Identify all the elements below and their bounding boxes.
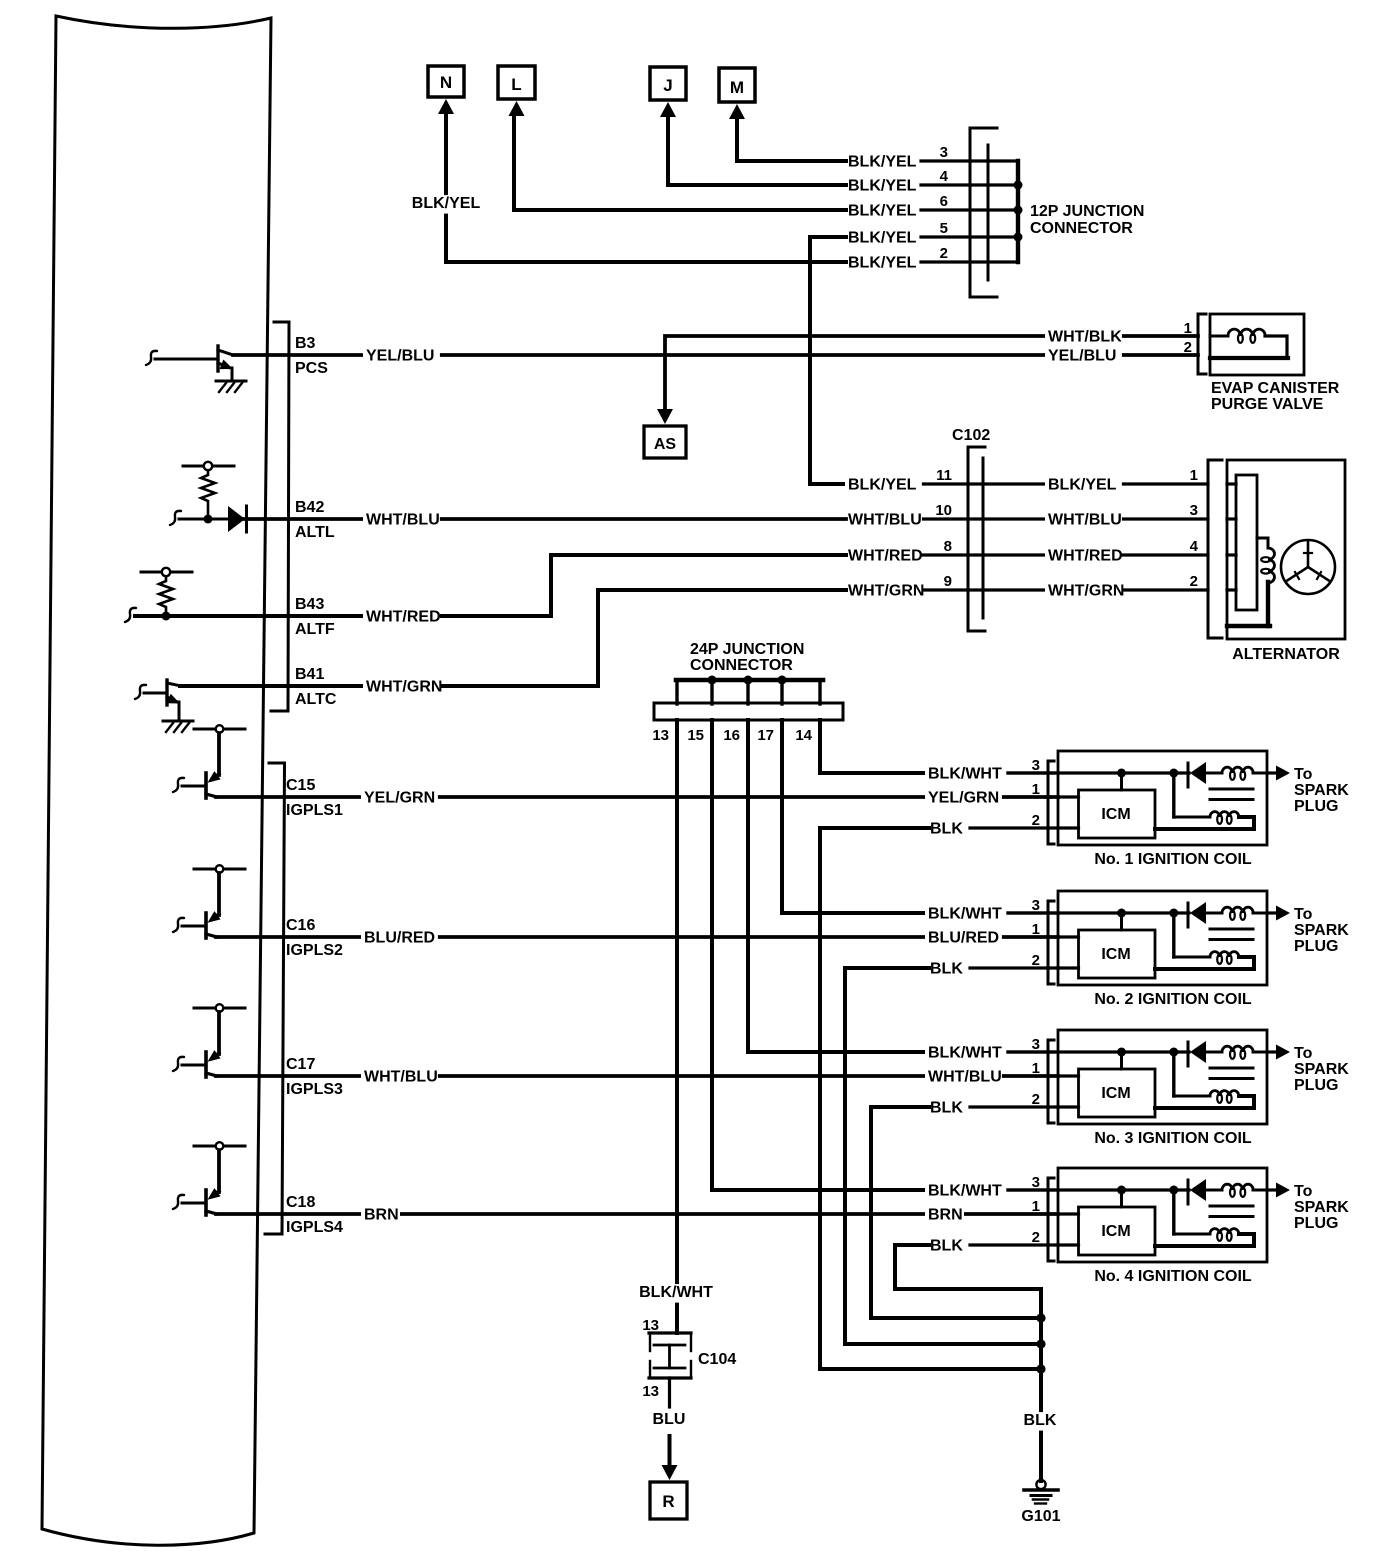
svg-text:1: 1: [1032, 781, 1040, 798]
label BLK (ground lead): [1021, 1412, 1060, 1431]
arrowhead to spark plug (No.4): [1276, 1183, 1290, 1198]
svg-text:4: 4: [940, 168, 949, 185]
label No. 3 IGNITION COIL: [1094, 1130, 1252, 1147]
svg-text:12P JUNCTION: 12P JUNCTION: [1030, 203, 1144, 220]
svg-text:BLU: BLU: [653, 1411, 686, 1428]
wire WHT/BLU (IGPLS3 to No.3 coil pin 1): [216, 1074, 1058, 1078]
label BLK/YEL on N wire: [408, 195, 485, 214]
svg-text:CONNECTOR: CONNECTOR: [1030, 220, 1133, 237]
label WHT/BLU (left): [361, 1069, 438, 1088]
wire BLK No.3 coil to ground bus: [871, 1107, 1041, 1318]
svg-text:G101: G101: [1021, 1508, 1060, 1525]
svg-text:PURGE VALVE: PURGE VALVE: [1211, 396, 1324, 413]
wire 17 to No.2 coil BLK/WHT: [782, 720, 926, 913]
label BLK/YEL (left of C102): [845, 477, 922, 496]
label No. 2 IGNITION COIL: [1094, 991, 1252, 1008]
svg-text:To: To: [1294, 766, 1313, 783]
wire BRN (IGPLS4 to No.4 coil pin 1): [216, 1212, 1058, 1216]
wire junction to ICM (No.1): [1120, 773, 1123, 790]
ICM module box (No.1 coil): [1079, 790, 1156, 838]
svg-text:BRN: BRN: [364, 1207, 399, 1224]
label YEL/BLU (left): [363, 348, 440, 367]
No.4 coil pin3 stub wire: [1008, 1188, 1058, 1191]
svg-text:C102: C102: [952, 427, 990, 444]
wire supply to transistor Q4 emitter: [217, 873, 221, 915]
svg-text:1: 1: [1032, 1060, 1040, 1077]
No.2 coil pin 2 number: [1032, 952, 1040, 969]
wire BLK No.4 coil to ground bus: [895, 1245, 1041, 1481]
24P pin 17 number: [757, 727, 774, 744]
junction on 12P bus: [1014, 206, 1023, 215]
label No. 1 IGNITION COIL: [1094, 851, 1252, 868]
24P bus stub: [780, 680, 783, 704]
svg-text:16: 16: [723, 727, 740, 744]
ground (ALTC emitter): [163, 721, 193, 732]
svg-text:PLUG: PLUG: [1294, 1215, 1338, 1232]
svg-text:BLK: BLK: [930, 1100, 963, 1117]
pin C17 name IGPLS3: [286, 1081, 343, 1098]
arrowhead into R: [662, 1465, 678, 1480]
pin B42 label: [295, 499, 324, 516]
connector box M: [719, 68, 755, 102]
svg-text:ICM: ICM: [1101, 806, 1130, 823]
12P pin 4 stub: [921, 183, 1018, 186]
12P junction connector bracket: [970, 128, 997, 297]
alternator pin 2 number: [1190, 573, 1198, 590]
primary winding (No.4 coil): [1206, 1184, 1267, 1197]
core lines (No.4 coil): [1210, 1206, 1253, 1217]
wire C102 pin 11 to alternator pin 1: [983, 482, 1208, 485]
wire C102 pin 10 to alternator pin 3: [983, 517, 1208, 520]
24P pin 14 number: [795, 727, 812, 744]
transistor Q5 (PNP, IGPLS3 driver): [206, 1050, 221, 1077]
ICM module box (No.3 coil): [1079, 1069, 1156, 1117]
label BLK (No.4 coil): [927, 1238, 966, 1257]
wire D1 cathode to pin B3 row: [247, 518, 265, 521]
connector box N: [428, 66, 464, 97]
svg-text:R: R: [662, 1492, 674, 1511]
svg-text:3: 3: [1190, 502, 1198, 519]
alternator pin 1 number: [1190, 467, 1198, 484]
arrowhead into J: [660, 102, 676, 117]
No.4 coil pin 1 wire into ICM: [1058, 1212, 1079, 1215]
label WHT/RED (B43): [363, 609, 441, 628]
svg-text:10: 10: [935, 502, 952, 519]
No.4 coil pin 1 number: [1032, 1198, 1040, 1215]
junction on No.3 coil primary feed 2: [1169, 1048, 1178, 1057]
svg-text:9: 9: [944, 573, 952, 590]
pin C16 name IGPLS2: [286, 942, 343, 959]
svg-text:N: N: [440, 73, 452, 92]
No.2 coil pin 3 number: [1032, 897, 1040, 914]
connector box R: [650, 1482, 687, 1519]
wire BLK No.2 coil to ground bus: [845, 968, 1041, 1344]
label BRN (No.4 coil): [925, 1207, 964, 1226]
ICM module box (No.4 coil): [1079, 1207, 1156, 1255]
wire coil output to spark plug (No.1): [1267, 771, 1278, 774]
pin C15 name IGPLS1: [286, 802, 343, 819]
rotor / stator symbol (alternator): [1281, 540, 1335, 594]
arrowhead into N: [438, 99, 454, 114]
No.3 ignition coil box: [1058, 1030, 1267, 1124]
label WHT/BLU (left of C102): [845, 512, 922, 531]
wire B42/ALTL WHT/BLU row: [233, 517, 846, 521]
label WHT/GRN (right of C102): [1045, 583, 1124, 602]
No.2 coil pin 2 wire into ICM: [1058, 966, 1079, 969]
svg-text:4: 4: [1190, 538, 1199, 555]
wire supply to transistor Q6 emitter: [217, 1150, 221, 1192]
field winding L2 (alternator): [1227, 538, 1275, 626]
No.1 coil pin 1 number: [1032, 781, 1040, 798]
wire 13 down to C104: [675, 720, 679, 1333]
No.1 coil pin2 stub wire: [970, 826, 1058, 829]
label WHT/RED (left of C102): [845, 548, 923, 567]
label EVAP CANISTER PURGE VALVE: [1211, 380, 1340, 413]
junction on 12P bus: [1014, 181, 1023, 190]
wire supply to transistor Q5 emitter: [217, 1012, 221, 1054]
wire B43 lead hook (ALTF): [125, 608, 136, 622]
svg-text:11: 11: [936, 467, 952, 484]
wire WHT/RED into C102 pin 8: [846, 553, 983, 556]
svg-text:IGPLS1: IGPLS1: [286, 802, 343, 819]
junction on No.2 coil primary feed: [1117, 909, 1126, 918]
C102 pin 9 number: [944, 573, 952, 590]
transistor Q1 (NPN, PCS driver): [218, 346, 233, 371]
junction on 24P bus: [778, 676, 787, 685]
wire Q2 emitter to ground: [178, 702, 181, 720]
svg-text:To: To: [1294, 1045, 1313, 1062]
diode D1 (ALTL): [228, 506, 247, 532]
label ICM (No.4): [1101, 1223, 1130, 1240]
12P pin 6 number: [940, 193, 948, 210]
supply node (IGPLS3 driver): [194, 1004, 245, 1012]
pin B3 name PCS: [295, 360, 328, 377]
secondary winding (No.2 coil): [1155, 952, 1254, 969]
arrowhead into L: [509, 101, 525, 116]
wire junction2 to secondary (No.4): [1172, 1190, 1175, 1234]
svg-text:SPARK: SPARK: [1294, 1061, 1349, 1078]
connector box AS: [644, 426, 686, 458]
svg-text:To: To: [1294, 1183, 1313, 1200]
No.1 coil pin3 stub wire: [1008, 771, 1058, 774]
svg-text:To: To: [1294, 906, 1313, 923]
No.1 coil pin 1 wire into ICM: [1058, 795, 1079, 798]
alternator pin stub: [1227, 517, 1236, 520]
No.4 coil connector bracket: [1048, 1178, 1054, 1261]
label BLK (No.3 coil): [927, 1100, 966, 1119]
No.4 coil pin 2 wire into ICM: [1058, 1243, 1079, 1246]
label WHT/BLK: [1045, 329, 1122, 348]
svg-text:5: 5: [940, 220, 948, 237]
label WHT/GRN (B41): [363, 679, 442, 698]
alternator box: [1227, 460, 1345, 639]
label BLK/WHT (No.1 coil): [925, 766, 1002, 785]
svg-text:SPARK: SPARK: [1294, 782, 1349, 799]
wire purge valve coil return: [1210, 356, 1288, 360]
transistor Q5 base lead hook: [173, 1057, 184, 1071]
svg-text:1: 1: [1190, 467, 1198, 484]
No.1 coil pin 3 number: [1032, 757, 1040, 774]
wire Q1 emitter to ground: [231, 368, 234, 380]
label To SPARK PLUG (No.1): [1294, 766, 1349, 815]
wire B43/ALTF WHT/RED row: [135, 555, 846, 616]
svg-text:2: 2: [940, 245, 948, 262]
wire 12P pin 5 row to BLK/YEL drop: [810, 237, 846, 484]
svg-text:6: 6: [940, 193, 948, 210]
wire BLK/YEL into C102 pin 11: [846, 482, 983, 485]
No.3 coil pin 2 wire into ICM: [1058, 1105, 1079, 1108]
svg-text:ICM: ICM: [1101, 1085, 1130, 1102]
label BLK/WHT (No.3 coil): [925, 1045, 1002, 1064]
wire junction to ICM (No.4): [1120, 1190, 1123, 1207]
ICM module box (No.2 coil): [1079, 930, 1156, 978]
No.3 coil connector bracket: [1048, 1040, 1054, 1123]
svg-text:J: J: [663, 76, 672, 95]
wire WHT/BLK (AS to purge valve pin 1): [665, 336, 1198, 419]
connector box J: [650, 67, 686, 100]
12P pin 3 stub: [921, 159, 1018, 162]
svg-text:BLU/RED: BLU/RED: [928, 930, 999, 947]
wire from J down to 12P pin 4 row: [668, 113, 846, 185]
svg-text:WHT/BLU: WHT/BLU: [366, 512, 440, 529]
No.1 ignition coil box: [1058, 751, 1267, 845]
svg-text:No. 2 IGNITION COIL: No. 2 IGNITION COIL: [1094, 991, 1252, 1008]
C102 pin 8 number: [944, 538, 952, 555]
connector box L: [498, 66, 535, 99]
svg-text:SPARK: SPARK: [1294, 1199, 1349, 1216]
label BLU/RED (No.2 coil): [925, 930, 1002, 949]
C102 pin 10 number: [935, 502, 952, 519]
junction BLK bus 2: [1036, 1339, 1045, 1348]
No.4 coil pin2 stub wire: [970, 1243, 1058, 1246]
arrowhead to spark plug (No.2): [1276, 906, 1290, 921]
label YEL/GRN (left): [361, 790, 438, 809]
svg-text:ICM: ICM: [1101, 946, 1130, 963]
svg-text:2: 2: [1184, 339, 1192, 356]
connector C102 body line: [982, 458, 985, 618]
alternator pin stub: [1227, 588, 1236, 591]
label ICM (No.1): [1101, 806, 1130, 823]
24P pin 16 number: [723, 727, 740, 744]
svg-text:BLK/WHT: BLK/WHT: [928, 766, 1002, 783]
svg-text:BLK: BLK: [930, 1238, 963, 1255]
svg-text:WHT/RED: WHT/RED: [1048, 548, 1123, 565]
pin B41 name ALTC: [295, 691, 337, 708]
12P pin 4 number: [940, 168, 949, 185]
wire coil output to spark plug (No.2): [1267, 911, 1278, 914]
svg-text:YEL/BLU: YEL/BLU: [1048, 348, 1116, 365]
svg-text:BLK/YEL: BLK/YEL: [1048, 477, 1117, 494]
No.1 coil pin 2 wire into ICM: [1058, 826, 1079, 829]
alternator pin 3 number: [1190, 502, 1198, 519]
No.1 coil pin 3 wire: [1008, 771, 1189, 774]
transistor Q3 base wire: [182, 785, 206, 788]
label BLK/YEL (12P pin 3): [848, 154, 917, 171]
wire from N down to 12P pin 2 row: [446, 110, 846, 262]
wire C102 pin 9 to alternator pin 2: [983, 588, 1208, 591]
C104 pin 13 number (top): [642, 1317, 659, 1334]
svg-text:BLK: BLK: [1024, 1412, 1057, 1429]
No.1 coil connector bracket: [1048, 761, 1054, 844]
arrowhead into AS: [657, 409, 673, 424]
transistor Q2 base wire: [144, 692, 167, 695]
C104 pin 13 number (bottom): [642, 1383, 659, 1400]
12P pin 3 number: [940, 144, 948, 161]
secondary winding (No.3 coil): [1155, 1091, 1254, 1108]
svg-text:No. 3 IGNITION COIL: No. 3 IGNITION COIL: [1094, 1130, 1252, 1147]
wire B42 base: [179, 518, 229, 521]
ground (PCS emitter): [216, 381, 246, 392]
svg-text:C104: C104: [698, 1351, 736, 1368]
12P junction connector body line: [987, 145, 990, 280]
svg-text:AS: AS: [654, 436, 677, 453]
label To SPARK PLUG (No.2): [1294, 906, 1349, 955]
transistor Q6 (PNP, IGPLS4 driver): [206, 1188, 221, 1215]
wire from L down to 12P pin 6 row: [514, 112, 846, 210]
junction on No.2 coil primary feed 2: [1169, 909, 1178, 918]
label BLK/WHT (No.4 coil): [925, 1183, 1002, 1202]
alternator pin 4 number: [1190, 538, 1199, 555]
alternator connector bracket: [1208, 460, 1222, 638]
No.4 coil pin 3 number: [1032, 1174, 1040, 1191]
pin B43 name ALTF: [295, 621, 335, 638]
label BLU: [653, 1411, 686, 1428]
12P pin 5 number: [940, 220, 948, 237]
svg-text:13: 13: [642, 1383, 659, 1400]
wire 14 to No.1 coil BLK/WHT: [820, 720, 926, 773]
secondary winding (No.4 coil): [1155, 1229, 1254, 1246]
wire B41/ALTC WHT/GRN row: [180, 590, 846, 686]
svg-text:ALTL: ALTL: [295, 524, 335, 541]
core lines (No.2 coil): [1210, 929, 1253, 940]
svg-text:13: 13: [652, 727, 669, 744]
alternator connector strip: [1236, 475, 1257, 610]
No.3 coil pin 1 number: [1032, 1060, 1040, 1077]
purge valve pin 2 number: [1184, 339, 1192, 356]
diode D1 base lead hook (ALTL): [170, 511, 181, 525]
12P junction connector bus: [1016, 161, 1020, 262]
core lines (No.1 coil): [1210, 789, 1253, 800]
pin B3 label: [295, 335, 316, 352]
connector C104: [649, 1333, 691, 1378]
svg-text:YEL/GRN: YEL/GRN: [928, 790, 999, 807]
ECU connector bracket (pins C15,C16,C17,C18): [265, 763, 285, 1234]
label BLK (No.1 coil): [927, 821, 966, 840]
junction on No.3 coil primary feed: [1117, 1048, 1126, 1057]
svg-text:24P JUNCTION: 24P JUNCTION: [690, 641, 804, 658]
label WHT/BLU (B42): [363, 512, 440, 531]
alternator pin stub: [1227, 482, 1236, 485]
transistor Q6 base wire: [182, 1202, 206, 1205]
24P junction connector body: [654, 703, 843, 720]
svg-text:IGPLS4: IGPLS4: [286, 1219, 343, 1236]
svg-text:BLK: BLK: [930, 821, 963, 838]
transistor Q4 base wire: [182, 925, 206, 928]
label WHT/RED (right of C102): [1045, 548, 1123, 567]
wire C104 to BLU label: [668, 1378, 671, 1407]
pin B43 label: [295, 596, 324, 613]
svg-text:B3: B3: [295, 335, 316, 352]
svg-text:WHT/GRN: WHT/GRN: [1048, 583, 1124, 600]
svg-text:SPARK: SPARK: [1294, 922, 1349, 939]
svg-text:ALTC: ALTC: [295, 691, 337, 708]
label WHT/GRN (left of C102): [845, 583, 924, 602]
svg-text:BRN: BRN: [928, 1207, 963, 1224]
svg-text:2: 2: [1190, 573, 1198, 590]
svg-text:BLK/YEL: BLK/YEL: [848, 477, 917, 494]
wire BLU/RED (IGPLS2 to No.2 coil pin 1): [216, 935, 1058, 939]
No.4 coil pin 2 number: [1032, 1229, 1040, 1246]
core lines (No.3 coil): [1210, 1068, 1253, 1079]
wire supply to transistor Q3 emitter: [217, 733, 221, 775]
24P bus stub: [675, 680, 678, 704]
No.2 coil pin3 stub wire: [1008, 911, 1058, 914]
wire 15 to No.4 coil BLK/WHT: [712, 720, 926, 1190]
No.2 coil connector bracket: [1048, 901, 1054, 984]
wire BLK No.1 coil to ground bus: [820, 828, 1041, 1369]
pin C17 label: [286, 1056, 315, 1073]
junction on 24P bus: [744, 676, 753, 685]
svg-text:PLUG: PLUG: [1294, 798, 1338, 815]
arrowhead into M: [729, 104, 745, 119]
No.4 ignition coil box: [1058, 1168, 1267, 1262]
diode D (No.3 coil): [1188, 1041, 1206, 1066]
wire C102 pin 8 to alternator pin 4: [983, 553, 1208, 556]
No.2 coil pin 3 wire: [1008, 911, 1189, 914]
svg-text:BLK/YEL: BLK/YEL: [848, 255, 917, 272]
label To SPARK PLUG (No.3): [1294, 1045, 1349, 1094]
12P pin 2 stub: [921, 260, 1018, 263]
svg-text:B43: B43: [295, 596, 324, 613]
24P bus stub: [818, 680, 821, 704]
label G101: [1021, 1508, 1060, 1525]
pin C18 label: [286, 1194, 315, 1211]
transistor Q2 base lead hook (ALTC driver): [135, 685, 146, 699]
wire YEL/GRN (IGPLS1 to No.1 coil pin 1): [216, 795, 1058, 799]
transistor Q2 (NPN, ALTC driver): [167, 680, 182, 705]
svg-text:BLK/YEL: BLK/YEL: [848, 203, 917, 220]
No.3 coil pin2 stub wire: [970, 1105, 1058, 1108]
svg-text:L: L: [511, 75, 521, 94]
wire YEL/BLU (PCS to purge valve pin 2): [233, 353, 1198, 357]
svg-text:BLK/YEL: BLK/YEL: [848, 230, 917, 247]
svg-text:BLK/YEL: BLK/YEL: [848, 178, 917, 195]
supply node (B43 pull-up): [141, 568, 192, 576]
label WHT/BLU (right of C102): [1045, 512, 1122, 531]
junction on No.1 coil primary feed 2: [1169, 769, 1178, 778]
transistor Q4 base lead hook: [173, 918, 184, 932]
svg-text:1: 1: [1032, 1198, 1040, 1215]
label BLK/YEL (12P pin 5): [848, 230, 917, 247]
diode D (No.4 coil): [1188, 1179, 1206, 1204]
supply node (IGPLS2 driver): [194, 865, 245, 873]
wire WHT/BLU into C102 pin 10: [846, 517, 983, 520]
24P pin 15 number: [687, 727, 704, 744]
wire junction to ICM (No.3): [1120, 1052, 1123, 1069]
No.4 coil pin 3 wire: [1008, 1188, 1189, 1191]
supply node (IGPLS1 driver): [194, 725, 245, 733]
svg-text:ALTERNATOR: ALTERNATOR: [1232, 646, 1340, 663]
svg-text:8: 8: [944, 538, 952, 555]
label BLK/WHT (No.2 coil): [925, 906, 1002, 925]
primary winding (No.1 coil): [1206, 767, 1267, 780]
resistor R2 (B43 pull-up): [159, 577, 173, 613]
svg-text:BLK: BLK: [930, 961, 963, 978]
svg-text:WHT/BLU: WHT/BLU: [848, 512, 922, 529]
svg-text:IGPLS3: IGPLS3: [286, 1081, 343, 1098]
svg-text:BLK/WHT: BLK/WHT: [928, 906, 1002, 923]
label 12P JUNCTION CONNECTOR: [1030, 203, 1144, 237]
